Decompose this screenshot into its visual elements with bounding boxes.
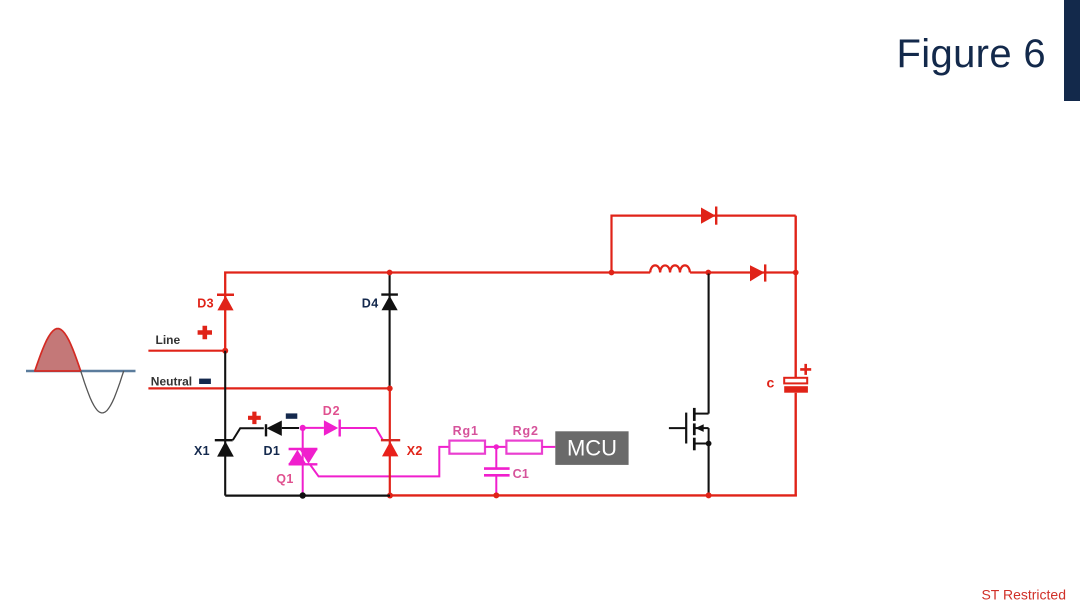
minus polarity at D1 cathode — [286, 413, 298, 418]
svg-text:Rg2: Rg2 — [513, 424, 539, 438]
plus polarity at Line input — [198, 326, 212, 339]
inductor L — [650, 265, 690, 272]
wire Rg1 to Rg2 — [485, 446, 506, 448]
diode boost (output) — [750, 264, 765, 281]
wire X2 branch (red vertical) — [389, 388, 391, 495]
header corner bar — [1064, 0, 1080, 101]
diode D2 — [324, 420, 340, 437]
wire D4 branch (black vertical) — [389, 274, 391, 388]
wire bottom return (red) — [390, 494, 797, 496]
wire top bus right — [690, 271, 796, 273]
svg-text:Q1: Q1 — [276, 472, 293, 486]
svg-text:D3: D3 — [197, 296, 214, 310]
node output top — [793, 270, 799, 276]
wire bridge left leg (black vertical) — [224, 351, 226, 496]
wire D1 to node — [282, 427, 299, 429]
node Neutral / X2 — [387, 386, 393, 392]
svg-text:c: c — [767, 374, 775, 390]
wire bottom return (black) — [225, 495, 390, 497]
svg-text:D4: D4 — [362, 296, 379, 310]
block MCU — [555, 431, 628, 465]
wire output right vertical lower — [795, 393, 797, 497]
capacitor C (bulk output) — [784, 364, 811, 393]
diode bypass (top) — [701, 207, 716, 225]
wire MOSFET drain vertical — [708, 274, 710, 414]
thyristor X2 — [381, 440, 400, 456]
diode D3 — [217, 295, 234, 311]
wire Q1 gate to Rg1 — [310, 447, 449, 477]
node C1 tap — [494, 444, 499, 449]
wire Line input — [148, 350, 225, 352]
node inductor / MOSFET drain — [705, 270, 711, 276]
node Q1 bottom junction (black) — [300, 492, 306, 498]
triac Q1 — [289, 449, 318, 464]
thyristor X1 — [215, 440, 234, 456]
wire bypass loop — [612, 216, 796, 273]
svg-text:X2: X2 — [407, 444, 423, 458]
wire X1 gate to D1 — [233, 428, 264, 440]
node D1/D2/Q1 junction — [300, 425, 306, 431]
node X2 bottom junction — [387, 493, 393, 499]
resistor Rg2 — [506, 441, 542, 454]
wire Rg2 to MCU — [542, 446, 555, 448]
svg-text:X1: X1 — [194, 444, 210, 458]
plus polarity at D1 anode — [248, 412, 261, 425]
MOSFET Q (power switch) — [669, 408, 712, 450]
wire Neutral input — [148, 387, 390, 389]
node Line junction — [222, 348, 228, 354]
wire MOSFET source to bottom — [708, 444, 710, 496]
svg-text:Figure 6: Figure 6 — [896, 32, 1046, 76]
svg-text:C1: C1 — [513, 467, 530, 481]
svg-text:ST Restricted: ST Restricted — [981, 587, 1066, 603]
node C1 ground junction — [493, 492, 499, 498]
minus polarity at Neutral input — [199, 379, 211, 384]
wire Q1 branch vertical (magenta) — [302, 428, 304, 496]
node top bus / bypass loop left — [609, 270, 615, 276]
wire node to D2 — [303, 427, 324, 429]
wire output right vertical upper — [795, 216, 797, 378]
node top bus / D4 — [387, 270, 393, 276]
AC source sine negative half-cycle — [81, 371, 124, 413]
wire D2 to X2 gate — [340, 428, 383, 440]
svg-text:D1: D1 — [264, 444, 281, 458]
svg-text:Rg1: Rg1 — [453, 424, 479, 438]
AC source sine wave axis — [26, 370, 136, 373]
svg-text:D2: D2 — [323, 404, 341, 418]
wire top bus left (red) — [225, 273, 650, 352]
diode D4 — [381, 295, 398, 311]
resistor Rg1 — [449, 441, 485, 454]
diode D1 — [266, 421, 282, 437]
svg-text:Neutral: Neutral — [151, 375, 192, 389]
AC source sine positive half-cycle — [35, 329, 81, 371]
capacitor C1 — [484, 447, 510, 496]
node source / bottom bus — [706, 492, 712, 498]
svg-text:MCU: MCU — [567, 436, 617, 461]
svg-text:Line: Line — [156, 333, 181, 347]
